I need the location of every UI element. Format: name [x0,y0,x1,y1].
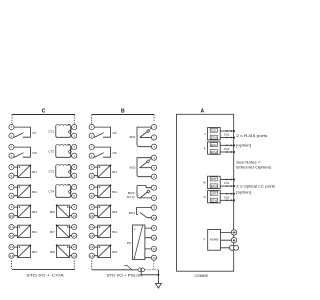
svg-text:10: 10 [10,214,14,218]
terminal Br-11 [151,226,156,231]
svg-text:Ch1: Ch1 [224,181,230,185]
svg-text:ETH: ETH [211,150,217,154]
wire stubs row 5 B-left [94,207,97,216]
terminal Cr-3 [72,145,77,150]
svg-text:+: + [134,228,136,232]
wire stubs row 7 B-left [94,247,97,256]
svg-text:N: N [204,195,206,199]
current transformer CT2 [48,144,72,157]
svg-text:14: 14 [152,256,156,260]
svg-text:BO4: BO4 [129,211,135,215]
svg-text:BO1: BO1 [130,135,136,139]
wire stubs row 6 C-left [14,227,18,236]
current transformer CT4 [48,184,72,197]
terminal Cr-2 [72,133,77,138]
svg-text:Ch2: Ch2 [224,147,230,151]
svg-text:12: 12 [152,236,156,240]
svg-text:BI5: BI5 [32,250,37,254]
wire stubs row 6 C-right [69,227,71,236]
svg-text:BI3: BI3 [112,210,117,214]
svg-text:RS485: RS485 [210,237,219,241]
svg-text:OPT: OPT [211,192,217,196]
svg-text:O7: O7 [32,131,36,135]
relay output BO4 [137,208,152,218]
relay output BO1 [130,127,152,147]
terminal Br-13 [151,246,156,251]
serial port RS485 [204,229,232,250]
svg-text:B: B [121,109,125,115]
terminal B-13 [89,245,94,250]
terminal Br-6 [151,174,156,179]
terminal C-8 [9,193,14,198]
svg-text:[option]: [option] [236,189,251,194]
comm port ETH-ELEC-1 [204,128,235,140]
svg-text:4(4,3): 4(4,3) [127,195,135,199]
svg-text:10: 10 [152,216,156,220]
svg-text:OPT: OPT [211,177,217,181]
binary input B-BI2 [98,184,118,197]
svg-text:2 x Optical LC ports: 2 x Optical LC ports [236,183,275,188]
svg-text:C: C [42,109,46,115]
terminal Br-14 [151,255,156,260]
terminal B-9 [89,205,94,210]
binary input BI4 [18,224,38,237]
comm port ETH-OPT-1 [203,176,235,188]
terminal B-1 [89,125,94,130]
svg-text:ELEC: ELEC [211,143,217,147]
module A border [177,114,234,271]
svg-text:A: A [200,108,204,114]
terminal B-11 [89,225,94,230]
terminal B-8 [89,193,94,198]
svg-text:13: 13 [10,245,14,249]
power supply PS [127,225,152,260]
terminal Cr-12 [72,233,77,238]
module C bottom bracket [12,260,76,269]
disconnect blade [124,266,131,270]
wire stubs row 3 C-left [14,167,18,176]
svg-text:Ch1: Ch1 [224,133,230,137]
svg-text:O8: O8 [32,151,36,155]
terminal C-12 [9,233,14,238]
link terminals [138,268,142,272]
svg-text:13: 13 [90,245,94,249]
svg-text:BI1: BI1 [32,170,37,174]
svg-text:CT2: CT2 [48,150,54,154]
terminal Br-2 [151,135,156,140]
terminal Br-7 [151,185,156,190]
svg-text:11: 11 [90,225,93,229]
binary input BI6 [50,204,69,217]
svg-text:BI2: BI2 [112,190,117,194]
svg-text:14: 14 [73,254,77,258]
contact O7 [14,127,37,137]
svg-text:ETH: ETH [211,199,217,203]
svg-text:PS: PS [127,241,131,245]
svg-text:11: 11 [153,226,156,230]
terminal Cr-6 [72,173,77,178]
terminal B-7 [89,185,94,190]
svg-text:13: 13 [152,247,156,251]
terminal Cr-8 [72,193,77,198]
wire stubs row 6 B-left [94,227,97,236]
svg-text:Ch2: Ch2 [224,195,230,199]
binary input B-BI4 [98,224,118,237]
binary input BI3 [18,204,38,217]
svg-text:12: 12 [10,234,14,238]
module B top bracket [92,115,154,125]
svg-text:COMMS: COMMS [194,274,208,278]
binary input B-BI3 [98,204,118,217]
wire stubs row 7 C-right [69,247,71,256]
svg-text:ETH: ETH [211,136,217,140]
annotation texts [236,133,275,194]
svg-text:Ethernet Options: Ethernet Options [236,165,271,170]
svg-text:O5: O5 [112,131,116,135]
terminal B-14 [89,253,94,258]
wire stubs row 4 B-left [94,187,97,196]
svg-text:[option]: [option] [236,143,251,148]
terminal Cr-7 [72,185,77,190]
wire stubs row 7 C-left [14,247,18,256]
contact O8 [14,147,37,157]
terminal Br-8 [151,195,156,200]
terminal B-3 [89,145,94,150]
terminal Cr-1 [72,125,77,130]
svg-text:BO2: BO2 [130,166,136,170]
svg-text:ETH: ETH [211,184,217,188]
terminal B-5 [89,165,94,170]
binary input BI5 [18,244,38,257]
wire stubs row 3 B-left [94,167,97,176]
comm port ETH-OPT-2 [204,191,235,203]
terminal B-10 [89,213,94,218]
contact O6 [94,147,117,157]
terminal C-5 [9,165,14,170]
module B bottom bracket [92,260,138,269]
terminal C-7 [9,185,14,190]
binary input B-BI1 [98,164,118,177]
svg-text:STD I/O + CT/A: STD I/O + CT/A [26,273,64,277]
contact O5 [94,127,117,137]
comm port ETH-ELEC-2 [204,142,235,154]
terminal C-10 [9,213,14,218]
module C top bracket [12,115,75,125]
terminal Cr-4 [72,153,77,158]
terminal B-4 [89,153,94,158]
terminal C-14 [9,253,14,258]
wire stubs row 4 C-left [14,187,18,196]
terminal C-4 [9,153,14,158]
terminal C-2 [9,133,14,138]
terminal Cr-13 [72,245,77,250]
terminal C-1 [9,125,14,130]
svg-text:BI6: BI6 [50,210,55,214]
svg-text:12: 12 [90,234,94,238]
svg-text:11: 11 [73,225,76,229]
svg-text:13: 13 [73,245,77,249]
terminal Br-1 [151,125,156,130]
terminal Br-4 [151,155,156,160]
current transformer CT1 [48,124,72,137]
dashed link to PS minus [145,261,159,270]
relay output BO2 [130,158,152,177]
RS485 terminal tri [231,238,236,243]
svg-text:BI7: BI7 [50,230,55,234]
current transformer CT3 [48,164,72,177]
svg-text:BI8: BI8 [50,250,55,254]
terminal Cr-5 [72,165,77,170]
relay output BO3 [137,186,151,198]
binary input B-BI5 [98,244,118,257]
svg-text:BI2: BI2 [32,190,37,194]
wire stubs row 5 C-left [14,207,18,216]
svg-text:BI3: BI3 [32,210,37,214]
terminal B-6 [89,173,94,178]
binary input BI2 [18,184,38,197]
terminal C-11 [9,225,14,230]
terminal Cr-10 [72,213,77,218]
terminal Cr-14 [72,253,77,258]
terminal Br-5 [151,165,156,170]
terminal C-13 [9,245,14,250]
svg-text:10: 10 [73,214,77,218]
svg-text:10: 10 [90,214,94,218]
svg-text:2 x RJ45 ports: 2 x RJ45 ports [236,133,267,138]
terminal C-6 [9,173,14,178]
svg-text:ELEC: ELEC [211,129,217,133]
terminal C-9 [9,205,14,210]
svg-text:CT3: CT3 [48,170,54,174]
terminal Cr-9 [72,205,77,210]
binary input BI1 [18,164,38,177]
svg-text:BI4: BI4 [112,230,117,234]
ground [156,283,162,288]
svg-text:BI5: BI5 [112,250,117,254]
terminal Cr-11 [72,225,77,230]
svg-text:BI1: BI1 [112,170,117,174]
RS485 terminal plus [231,230,236,235]
terminal Br-12 [151,235,156,240]
svg-text:F: F [204,238,206,242]
svg-text:BI4: BI4 [32,230,37,234]
svg-text:O6: O6 [112,151,116,155]
terminal C-3 [9,145,14,150]
svg-text:11: 11 [10,225,13,229]
svg-text:12: 12 [73,234,77,238]
svg-text:STD I/O + PSL/90: STD I/O + PSL/90 [107,273,143,277]
terminal Br-9 [151,205,156,210]
svg-text:14: 14 [10,254,14,258]
wire stubs row 5 C-right [69,207,71,216]
terminal Br-3 [151,144,156,149]
svg-text:CT4: CT4 [48,190,54,194]
svg-text:14: 14 [90,254,94,258]
binary input BI7 [50,224,69,237]
binary input BI8 [50,244,69,257]
RS485 terminal shield [229,245,238,250]
terminal B-12 [89,233,94,238]
terminal Br-10 [151,215,156,220]
wire to ground [141,270,158,284]
svg-text:−: − [134,256,136,260]
svg-text:K: K [204,146,206,150]
terminal B-2 [89,133,94,138]
svg-text:CT1: CT1 [48,130,54,134]
